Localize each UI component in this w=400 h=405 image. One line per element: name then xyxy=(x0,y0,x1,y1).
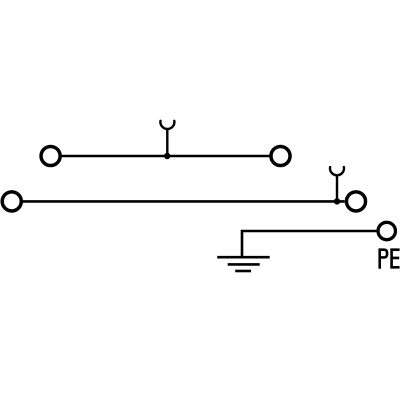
ground bar 3 xyxy=(235,270,251,273)
terminal circle L2 (lower level, left) xyxy=(2,192,21,211)
ground bar 2 xyxy=(228,263,260,266)
tap fork stem (upper level) xyxy=(166,128,168,156)
terminal circle L1 (upper level, left) xyxy=(41,146,60,165)
tap fork cup (lower level) xyxy=(330,167,344,175)
terminal circle PE (earth terminal, right) xyxy=(378,222,395,239)
junction dot upper level xyxy=(164,153,170,159)
junction dot lower level xyxy=(334,198,340,204)
label PE letter E xyxy=(392,250,400,268)
ground bar 1 xyxy=(217,256,270,259)
tap fork cup (upper level) xyxy=(160,121,174,129)
wire upper level xyxy=(62,155,270,158)
terminal circle R2 (lower level, right) xyxy=(346,192,365,211)
label PE letter P xyxy=(380,250,387,269)
PE wire with corner xyxy=(242,231,377,258)
tap fork stem (lower level) xyxy=(336,175,338,201)
terminal circle R1 (upper level, right) xyxy=(271,146,290,165)
wire lower level xyxy=(23,200,345,203)
